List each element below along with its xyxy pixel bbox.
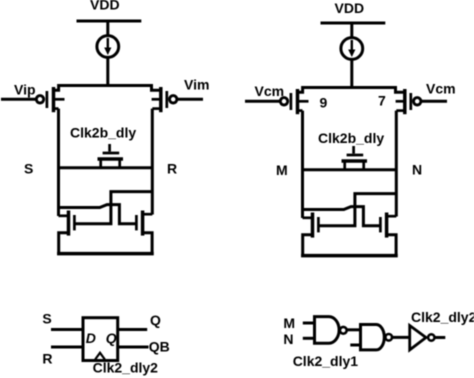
svg-text:Clk2b_dly: Clk2b_dly: [70, 125, 136, 141]
flip-flop U1 box: [83, 318, 118, 361]
svg-text:9: 9: [320, 95, 328, 111]
svg-text:Clk2_dly2: Clk2_dly2: [93, 360, 159, 376]
svg-text:QB: QB: [149, 339, 170, 355]
left tail-latch cell: [1, 21, 203, 255]
inverter U2 bubble: [428, 334, 434, 340]
svg-text:7: 7: [378, 93, 386, 109]
nand gate G1 body: [315, 317, 340, 344]
svg-text:Q: Q: [150, 312, 161, 328]
wire Q output: [118, 328, 148, 331]
svg-text:M: M: [276, 162, 288, 178]
wire M input: [303, 322, 316, 325]
svg-text:R: R: [167, 161, 177, 177]
wire S input: [51, 328, 83, 331]
svg-text:Vip: Vip: [14, 82, 36, 98]
svg-text:D: D: [86, 330, 96, 346]
svg-text:Clk2b_dly: Clk2b_dly: [318, 130, 384, 146]
svg-text:Vcm: Vcm: [426, 81, 456, 97]
svg-text:R: R: [42, 351, 52, 367]
flip-flop clock triangle: [95, 353, 105, 360]
svg-text:N: N: [412, 162, 422, 178]
svg-text:S: S: [24, 161, 33, 177]
svg-text:M: M: [283, 315, 295, 331]
svg-text:Q: Q: [106, 330, 117, 346]
svg-text:VDD: VDD: [335, 0, 365, 16]
nand gate G2 second input stub: [350, 344, 360, 347]
svg-text:Vcm: Vcm: [255, 83, 285, 99]
wire QB output: [118, 346, 149, 349]
svg-text:Clk2_dly1: Clk2_dly1: [293, 353, 359, 369]
wire R input: [51, 346, 83, 349]
svg-text:Clk2_dly2: Clk2_dly2: [411, 309, 474, 325]
wire inverter output: [434, 336, 445, 339]
svg-text:Vim: Vim: [184, 77, 209, 93]
inverter U2 triangle: [410, 326, 426, 350]
nand gate G1 bubble: [340, 327, 347, 334]
svg-text:VDD: VDD: [90, 0, 120, 13]
wire G1 to G2: [347, 328, 359, 331]
svg-text:N: N: [283, 331, 293, 347]
right tail-latch cell: [245, 23, 447, 257]
wire N input: [303, 337, 316, 340]
svg-text:S: S: [42, 311, 51, 327]
nand gate G2 bubble: [385, 334, 392, 341]
nand gate G2 body: [361, 325, 385, 350]
wire G2 to inverter: [392, 336, 409, 339]
